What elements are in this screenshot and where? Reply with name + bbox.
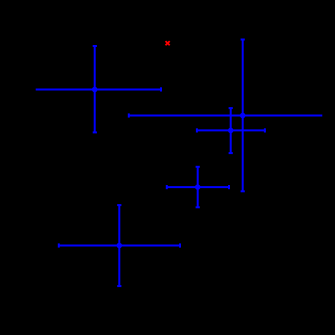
P4 y-error bottom cap [229,152,233,154]
data point P5 error bars [167,167,229,208]
P3 marker [240,113,246,119]
data point P4 error bars [197,108,265,153]
P4 x-error right cap [264,128,266,132]
data point P6 error bars [59,205,180,286]
data point P3 error bars [129,40,322,192]
P6 x-error bar [59,245,180,247]
P1 y-error bar [94,46,96,132]
P3 y-error top cap [241,39,245,41]
P6 y-error top cap [117,204,121,206]
P5 x-error bar [167,186,229,188]
red x marker [166,41,170,45]
P4 y-error bar [230,108,232,153]
P3 y-error bar [242,40,244,192]
P6 x-error left cap [58,243,60,247]
P3 x-error bar [129,115,322,117]
P1 y-error bottom cap [93,131,97,133]
P5 x-error left cap [166,185,168,189]
P4 x-error left cap [196,128,198,132]
P4 y-error top cap [229,107,233,109]
P5 y-error bottom cap [196,206,200,208]
P5 y-error top cap [196,166,200,168]
P4 x-error bar [197,129,265,131]
data point P1 error bars [36,46,161,132]
P6 y-error bar [118,205,120,286]
P3 x-error left cap [128,113,130,117]
P1 marker [92,87,98,93]
P1 y-error top cap [93,45,97,47]
P4 marker [228,128,234,134]
P5 marker [195,184,201,190]
P6 marker [117,243,123,249]
P5 y-error bar [197,167,199,208]
P5 x-error right cap [228,185,230,189]
P6 x-error right cap [179,243,181,247]
P1 x-error right cap [160,87,162,91]
P1 x-error bar [36,89,161,91]
P3 y-error bottom cap [241,190,245,192]
P6 y-error bottom cap [117,285,121,287]
